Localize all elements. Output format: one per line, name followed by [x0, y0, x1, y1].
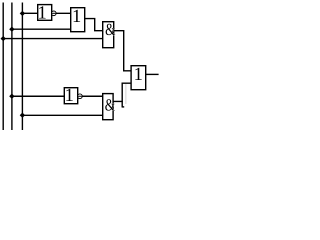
svg-text:&: & [105, 20, 115, 39]
svg-text:&: & [105, 96, 115, 115]
svg-text:1: 1 [134, 65, 143, 85]
svg-text:1: 1 [38, 4, 47, 24]
svg-text:1: 1 [65, 86, 74, 106]
svg-text:1: 1 [72, 7, 81, 27]
